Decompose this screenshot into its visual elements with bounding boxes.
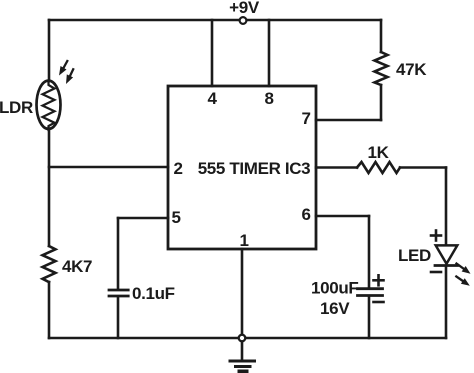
wire LDR bottom to 4K7 <box>48 130 51 246</box>
LED light arrow 1 <box>457 264 471 274</box>
ground symbol <box>230 342 255 372</box>
wire 47K bottom <box>380 85 383 120</box>
resistor 4K7 <box>43 246 56 282</box>
svg-text:16V: 16V <box>320 299 350 318</box>
svg-text:1K: 1K <box>367 143 389 162</box>
svg-text:4: 4 <box>207 89 217 108</box>
capacitor 0.1uF <box>109 290 128 296</box>
capacitor 100uF polarized <box>358 289 383 296</box>
IC IC3 555 timer box <box>168 86 316 249</box>
wire 100uF to bottom rail <box>368 297 371 338</box>
wire top rail +9V <box>49 19 381 22</box>
wire LED drop <box>445 168 448 246</box>
svg-text:47K: 47K <box>396 60 427 79</box>
LDR light arrow 1 <box>59 61 67 76</box>
wire pin6 drop to cap <box>368 216 371 287</box>
svg-text:8: 8 <box>264 89 273 108</box>
wire pin8 <box>268 20 271 86</box>
wire pin2 branch <box>49 166 168 169</box>
LDR photoresistor body <box>37 81 61 129</box>
wire pin4 <box>211 20 214 86</box>
wire 1K to LED column <box>400 166 446 169</box>
svg-text:1: 1 <box>239 231 248 250</box>
LED cathode minus sign <box>431 271 441 274</box>
svg-text:6: 6 <box>301 205 310 224</box>
LED anode plus sign <box>431 231 441 241</box>
wire left drop from rail to LDR <box>48 20 51 81</box>
node +9V terminal <box>240 17 247 24</box>
svg-text:7: 7 <box>301 109 310 128</box>
wire pin5 drop to cap <box>117 218 120 289</box>
wire pin5 <box>118 217 168 220</box>
wire pin1 drop <box>241 249 244 338</box>
node ground junction <box>239 335 246 342</box>
LDR internal resistor zigzag <box>43 82 55 131</box>
wire 47K top drop <box>380 20 383 52</box>
svg-text:5: 5 <box>171 208 180 227</box>
svg-text:LED: LED <box>398 246 431 265</box>
capacitor 100uF plus sign <box>374 275 384 285</box>
wire 0.1uF to bottom rail <box>117 297 120 338</box>
resistor 1K <box>357 162 400 173</box>
LED diode symbol <box>435 245 458 265</box>
svg-text:LDR: LDR <box>0 98 33 117</box>
LDR light arrow 2 <box>66 69 73 84</box>
svg-text:100uF: 100uF <box>311 279 358 298</box>
wire bottom rail <box>49 337 446 340</box>
LED light arrow 2 <box>456 277 470 286</box>
svg-text:0.1uF: 0.1uF <box>132 284 175 303</box>
svg-text:4K7: 4K7 <box>62 257 92 276</box>
svg-text:555 TIMER IC3: 555 TIMER IC3 <box>198 159 311 178</box>
capacitor 100uF minus sign <box>374 301 384 304</box>
wire 4K7 to bottom rail <box>48 282 51 338</box>
wire pin3 output <box>316 166 357 169</box>
svg-text:2: 2 <box>173 159 182 178</box>
wire pin6 <box>316 215 369 218</box>
svg-text:+9V: +9V <box>229 0 260 17</box>
wire pin7 <box>316 119 381 122</box>
resistor 47K <box>375 52 388 85</box>
wire LED to bottom rail <box>445 267 448 338</box>
